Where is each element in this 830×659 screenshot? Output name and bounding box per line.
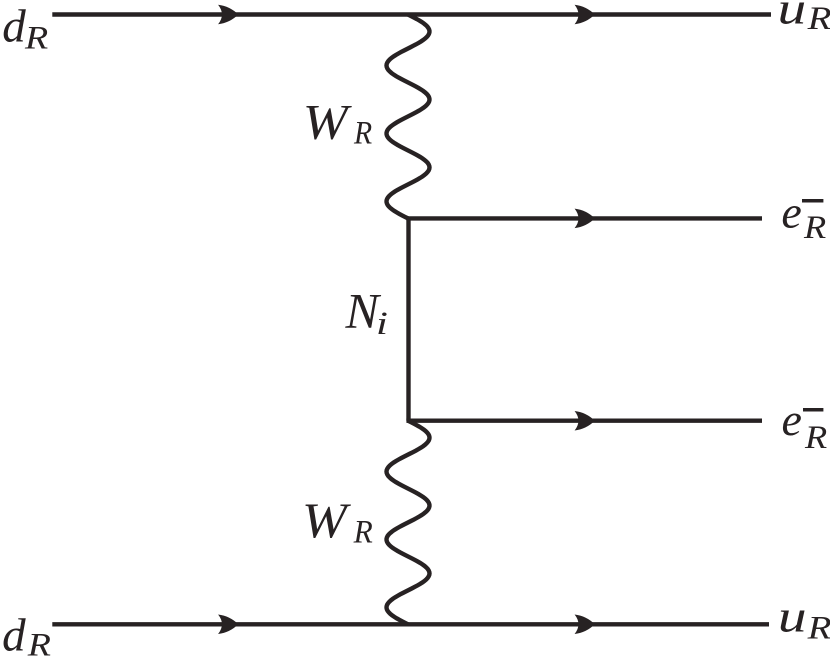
- fermion line d_R to u_R (top): [52, 12, 771, 16]
- svg-text:R: R: [807, 609, 830, 646]
- svg-text:e: e: [782, 394, 802, 445]
- boson W_R wavy line (upper): [387, 15, 430, 219]
- superscript minus of e2: [803, 408, 823, 412]
- arrow on lower e line: [575, 411, 595, 431]
- svg-text:e: e: [781, 186, 801, 237]
- arrow on bottom line (left): [218, 615, 238, 635]
- arrow on top line (right): [575, 5, 595, 25]
- electron line e_R (upper): [406, 216, 762, 220]
- svg-text:R: R: [804, 419, 827, 456]
- svg-text:R: R: [803, 209, 826, 246]
- arrow on bottom line (right): [575, 615, 595, 635]
- electron line e_R (lower): [406, 419, 762, 423]
- propagator N_i (vertical line): [406, 218, 410, 420]
- superscript minus of e1: [802, 199, 823, 203]
- svg-text:R: R: [353, 513, 373, 550]
- boson W_R wavy line (lower): [387, 421, 430, 625]
- svg-text:R: R: [24, 19, 49, 56]
- svg-text:i: i: [376, 306, 388, 342]
- svg-text:d: d: [2, 1, 26, 53]
- svg-text:R: R: [353, 114, 372, 151]
- svg-text:R: R: [27, 626, 52, 659]
- arrow on top line (left): [218, 5, 238, 25]
- svg-text:W: W: [303, 95, 353, 150]
- fermion line d_R to u_R (bottom): [52, 622, 769, 626]
- svg-text:d: d: [2, 610, 26, 659]
- arrow on upper e line: [575, 209, 595, 229]
- svg-text:u: u: [778, 592, 807, 642]
- svg-text:W: W: [302, 494, 352, 549]
- svg-text:u: u: [778, 0, 807, 34]
- svg-text:R: R: [807, 0, 830, 37]
